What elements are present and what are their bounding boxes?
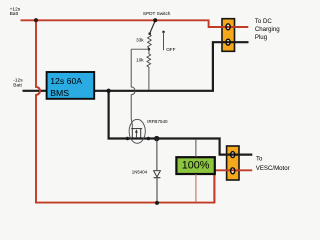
wire thin red sense from meter bottom to positive rail: [195, 174, 197, 202]
pin 1 of J2: [231, 152, 235, 158]
node switch ON contact: [148, 32, 151, 35]
wire diode cathode to positive rail: [156, 178, 158, 202]
wire divider tap horizontal: [131, 48, 149, 50]
switch SW1 blade: [150, 21, 156, 34]
pin 1 of J1: [226, 24, 230, 30]
resistor R2 10k: [147, 49, 151, 90]
wire +12V red left rail with hop and bottom rail: [36, 20, 215, 202]
resistor R1 33k: [148, 34, 152, 49]
wire OFF contact stub: [163, 32, 165, 50]
node drain terminal: [126, 137, 129, 141]
node BMS negative junction: [106, 89, 110, 93]
pin hole fill J1 pin 1: [226, 24, 230, 30]
transistor Q1 IRFB7540 body: [129, 119, 145, 143]
wire diode anode from junction: [156, 139, 158, 170]
transistor Q1 left leg: [131, 129, 133, 138]
BMS module U1: [47, 72, 95, 99]
node divider junction: [148, 48, 151, 51]
svg-text:To: To: [256, 156, 263, 163]
connector J2 (VESC/Motor): [227, 146, 239, 180]
transistor Q1 right leg: [140, 129, 142, 138]
wire red vertical from bottom rail up to VESC feed: [213, 170, 215, 202]
svg-text:OFF: OFF: [166, 47, 175, 52]
svg-text:12s 60A: 12s 60A: [50, 76, 82, 86]
wire red battery-meter output to VESC connector: [215, 169, 253, 171]
wire -12V black from battery through BMS up to charging connector: [23, 42, 249, 91]
svg-text:To DC: To DC: [255, 18, 273, 25]
svg-text:100%: 100%: [182, 160, 210, 172]
battery meter M1 (100%): [176, 157, 214, 174]
svg-text:BMS: BMS: [50, 88, 69, 98]
wire gate line with hop over negative rail: [131, 49, 135, 128]
node switch common on rail: [153, 18, 157, 22]
wire black branch through MOSFET to VESC connector: [109, 91, 253, 155]
svg-text:33k: 33k: [136, 37, 144, 42]
pin hole fill J1 pin 2: [226, 39, 230, 45]
node switch OFF contact: [162, 31, 165, 34]
node source terminal: [147, 137, 151, 141]
svg-text:Batt: Batt: [13, 82, 22, 88]
svg-text:Charging: Charging: [255, 26, 280, 33]
transistor Q1 gate bar: [131, 128, 142, 130]
svg-text:IRFB7540: IRFB7540: [147, 119, 168, 124]
wire red hop over negative wire: [36, 87, 40, 95]
pin hole fill J2 pin 1: [231, 152, 235, 158]
connector J1 (DC charging plug): [222, 19, 235, 52]
diode D1 1N5404: [154, 171, 161, 177]
transistor Q1 body arrow: [135, 131, 137, 137]
wire +12V red top rail: [21, 20, 249, 27]
node +12V rail tap: [34, 18, 38, 22]
svg-text:VESC/Motor: VESC/Motor: [256, 165, 290, 172]
pin 2 of J2: [231, 168, 235, 174]
svg-text:SPDT Switch: SPDT Switch: [143, 11, 171, 16]
svg-text:Batt: Batt: [10, 11, 19, 17]
pin hole fill J2 pin 2: [231, 168, 235, 174]
svg-text:10k: 10k: [136, 57, 144, 62]
node main output junction: [154, 136, 160, 142]
node diode-rail junction: [155, 201, 159, 205]
svg-text:1N5404: 1N5404: [132, 170, 148, 175]
svg-text:Plug: Plug: [255, 34, 267, 41]
wire thin black sense from negative rail to meter top: [195, 140, 197, 158]
pin 2 of J1: [226, 39, 230, 45]
